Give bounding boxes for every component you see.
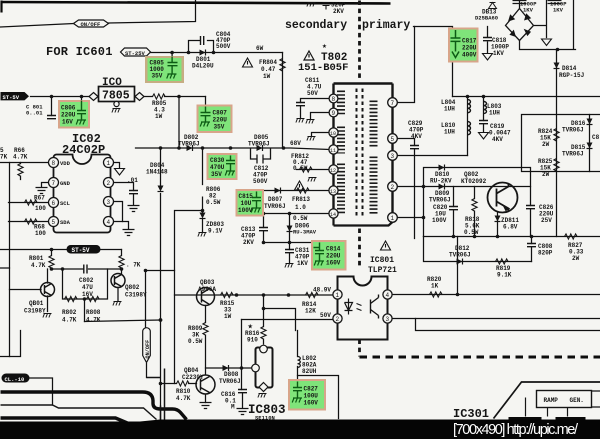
resistor R66 leads (20, 163, 22, 180)
resistor R819 (496, 259, 509, 264)
ground IC02 pin7 (36, 188, 48, 194)
svg-text:TVR06J: TVR06J (429, 197, 451, 204)
svg-text:2KV: 2KV (333, 8, 344, 15)
wire primary drop to T802 pin7 (398, 27, 415, 103)
svg-text:0.5W: 0.5W (464, 229, 479, 236)
svg-text:8: 8 (332, 96, 336, 103)
capacitor C801 (47, 116, 56, 119)
svg-text:C815: C815 (239, 193, 254, 200)
capacitor 320P top (323, 3, 330, 10)
svg-text:CL.-10: CL.-10 (5, 376, 25, 383)
wire 7805 out drop (178, 97, 180, 149)
svg-text:RGP-15J: RGP-15J (559, 72, 584, 79)
svg-text:1: 1 (391, 215, 395, 222)
svg-text:C3198Y: C3198Y (24, 308, 46, 315)
IC301 block outline (494, 382, 600, 419)
capacitor C813 (259, 228, 268, 231)
node ON/OFF vertical pill (143, 328, 151, 363)
wire SDA net (9, 221, 50, 223)
core dashed line mid (358, 229, 361, 269)
wire ST-25V net (151, 52, 283, 54)
svg-text:68V: 68V (290, 140, 301, 147)
svg-text:D807: D807 (268, 196, 283, 203)
svg-text:10: 10 (330, 131, 336, 137)
inductor L803 (484, 102, 487, 114)
svg-text:QB03: QB03 (200, 279, 215, 286)
node dot 467 (466, 95, 470, 99)
svg-text:C807: C807 (213, 110, 228, 117)
svg-text:1W: 1W (263, 73, 271, 80)
svg-text:151-B05F: 151-B05F (298, 62, 348, 74)
svg-text:9.1K: 9.1K (497, 272, 512, 279)
ground arrow C818 (483, 54, 493, 61)
svg-text:ICO: ICO (102, 77, 122, 89)
svg-text:C827: C827 (304, 386, 319, 393)
capacitor C829 leads (414, 139, 416, 239)
wire left rail (9, 163, 11, 357)
svg-text:★: ★ (322, 42, 327, 51)
diode D810 (439, 165, 445, 171)
svg-text:2: 2 (336, 316, 340, 323)
green highlight C814 (311, 240, 347, 271)
wire 320 link (85, 320, 161, 322)
svg-text:GEN.: GEN. (570, 397, 584, 404)
svg-text:1KV: 1KV (523, 7, 534, 14)
wire C816 branch (242, 320, 243, 408)
svg-text:0.5W: 0.5W (188, 338, 203, 345)
zener ZD803 (200, 213, 206, 219)
warning triangle T802 (304, 51, 314, 60)
svg-text:470U: 470U (210, 164, 225, 171)
diode D802 (187, 145, 193, 151)
diode D806 leads (289, 214, 291, 243)
svg-text:TVR06J: TVR06J (264, 203, 286, 210)
svg-text:16V: 16V (62, 119, 73, 126)
wire SCL net (9, 202, 50, 204)
svg-text:R801: R801 (29, 255, 44, 262)
green highlight C827 (288, 379, 326, 411)
svg-text:7: 7 (52, 180, 56, 187)
svg-text:4.7K: 4.7K (176, 395, 191, 402)
transistor Q802 (488, 183, 518, 213)
ground Q804 (200, 403, 212, 409)
svg-text:ST-5V: ST-5V (3, 94, 20, 101)
node CL-10 pill (2, 374, 30, 384)
opto pin 1 (333, 290, 342, 299)
diode D804 (158, 186, 164, 192)
wire L804 branch (467, 97, 469, 156)
resistor R827 (565, 234, 578, 239)
node dots 294 net (235, 293, 291, 297)
svg-text:12: 12 (330, 168, 336, 174)
node dot 263-213 (262, 212, 266, 216)
node dot 160-319 (159, 318, 163, 322)
pin 8 (329, 94, 338, 103)
watermark band (0, 420, 600, 439)
wire primary top (414, 27, 453, 97)
svg-text:1K: 1K (431, 283, 439, 290)
svg-text:24C02P: 24C02P (62, 143, 105, 157)
node dot 160-147 (159, 146, 163, 150)
capacitor C808 (527, 244, 536, 247)
wire T802 pin12 lead (297, 169, 330, 171)
pin 1 (388, 213, 398, 223)
svg-text:35V: 35V (152, 73, 163, 80)
svg-text:220U: 220U (213, 117, 228, 124)
resistor R810h (177, 381, 190, 386)
diode D808 (223, 365, 229, 371)
svg-text:TVR06J: TVR06J (449, 252, 471, 259)
node dot 241-367 (240, 366, 244, 370)
svg-text:TLP721: TLP721 (368, 266, 397, 275)
wire Q804 emitter (205, 395, 207, 403)
wire Q802 collector rail (530, 168, 532, 237)
svg-text:RU-2KV: RU-2KV (430, 178, 452, 185)
transformer core dashes (357, 89, 363, 216)
svg-text:R810: R810 (176, 388, 191, 395)
svg-text:7: 7 (391, 100, 395, 107)
ground 7805 (112, 109, 121, 113)
svg-text:910: 910 (247, 337, 258, 344)
svg-text:1KV: 1KV (553, 7, 564, 14)
optocoupler phototransistor (371, 295, 379, 319)
svg-text:RU-3MAV: RU-3MAV (293, 229, 317, 236)
node dot 84-298 (83, 297, 87, 301)
wire T802 pin5 lead (398, 138, 415, 140)
capacitor C801 lead (51, 97, 53, 116)
svg-text:4: 4 (107, 219, 111, 226)
svg-text:ON/OFF: ON/OFF (145, 340, 151, 359)
resistor R66v (18, 164, 23, 177)
IC301 RAMP GEN box (537, 391, 600, 408)
diode D815 (587, 143, 593, 149)
resistor R815 (221, 292, 234, 297)
svg-text:2W: 2W (572, 255, 580, 262)
svg-text:D808: D808 (224, 371, 239, 378)
svg-text:11: 11 (330, 148, 336, 154)
diode D805 (257, 145, 263, 151)
svg-text:2: 2 (107, 180, 111, 187)
svg-text:1: 1 (336, 292, 340, 299)
wire CL-10 (30, 378, 53, 405)
green highlight C807 (197, 105, 233, 134)
IC02 pin 5 (49, 217, 59, 227)
resistor R805h (153, 94, 166, 99)
diode D813 symbol pair (489, 3, 497, 9)
warning triangle IC801 (381, 241, 391, 250)
node dot 557 (556, 48, 560, 52)
svg-text:1N4148: 1N4148 (146, 169, 168, 176)
wire L803/C819 branch (483, 97, 485, 132)
top scan border (1, 2, 391, 4)
wire R810 net (161, 383, 197, 385)
node dot 51-96 (50, 95, 54, 99)
wire jog 308 (264, 309, 296, 331)
optocoupler LED (345, 299, 362, 315)
capacitor C818 lead (487, 27, 489, 53)
node dot 289-242 (288, 241, 292, 245)
capacitor C817 (in highlight) (451, 32, 461, 58)
resistor R820 (430, 292, 443, 297)
pin 9 (329, 108, 338, 117)
wire ON/OFF vertical net (146, 271, 175, 378)
dashed isolation line horizontal (360, 356, 600, 359)
capacitor C804 (201, 36, 204, 45)
node dot 423-217 (422, 216, 426, 220)
wire ON/OFF right (109, 1, 196, 24)
thick trace 391 (1, 392, 187, 420)
capacitor C813 leads (263, 214, 265, 243)
svg-text:TVR06J: TVR06J (248, 141, 270, 148)
resistor R806 leads (202, 148, 204, 214)
wire 236 rail (424, 236, 600, 238)
svg-text:A966A: A966A (198, 286, 216, 293)
opto pin 4 (383, 290, 392, 299)
wire 5V net (31, 96, 206, 98)
wire R816 branch (263, 295, 265, 344)
wire IC02 pin3 (113, 202, 123, 222)
transistor Q801 (41, 283, 55, 297)
transformer winding left (337, 91, 345, 214)
svg-text:FR813: FR813 (292, 196, 310, 203)
IC02 pin 1 (104, 158, 114, 168)
svg-text:14: 14 (330, 212, 336, 218)
svg-text:0.5W: 0.5W (206, 199, 221, 206)
svg-text:16V: 16V (82, 291, 93, 298)
wire 96V rail (453, 96, 600, 98)
capacitor 1000P top marks (513, 1, 562, 4)
svg-text:ON/OFF: ON/OFF (81, 21, 101, 28)
svg-text:220U: 220U (462, 45, 477, 52)
ground C811 (296, 119, 305, 123)
IC301 pads (509, 417, 586, 422)
ground pin12 (308, 178, 317, 182)
wire T802 pin1 lead (398, 217, 424, 219)
core dashed line upper (358, 1, 361, 81)
green highlight C830 (207, 153, 238, 180)
IC301 pad leads (526, 398, 568, 417)
node dot 423-186 (422, 185, 426, 189)
pin 12 (329, 165, 338, 174)
inductor L804 (468, 100, 471, 113)
node dot 160-383 (159, 382, 163, 386)
wire 330 rail (416, 319, 600, 331)
node dot 457-294 (456, 293, 460, 297)
node ON/OFF pill (74, 20, 109, 28)
wire opto pin3 net (393, 318, 600, 320)
resistor R67h (25, 200, 38, 205)
diode D816 (587, 119, 593, 125)
wire bridge right (535, 1, 547, 38)
svg-text:. 7K: . 7K (126, 262, 141, 269)
ground IC02 pin4 (123, 230, 135, 236)
ground arrow bridge (542, 39, 552, 46)
pin 13 (329, 186, 338, 195)
capacitor C811 (296, 103, 305, 106)
diode D806 (287, 226, 293, 232)
svg-text:6.8V: 6.8V (503, 224, 518, 231)
node dot 202-210 (201, 209, 205, 213)
ground C831 (285, 264, 294, 268)
resistor FR812 (300, 167, 313, 172)
node dot 283-147 (282, 146, 286, 150)
resistor R816v (261, 327, 266, 340)
svg-text:13: 13 (330, 189, 336, 195)
svg-text:9: 9 (332, 110, 336, 117)
node dot 51-268 (50, 267, 54, 271)
ground arrow C819 (479, 133, 489, 140)
svg-text:220U: 220U (326, 253, 341, 260)
green highlight C805 (145, 56, 184, 83)
ground Q801 (43, 314, 52, 318)
svg-text:FOR IC601: FOR IC601 (46, 45, 113, 59)
wire T802 pin10 lead (312, 133, 330, 137)
pin 3 (388, 151, 398, 161)
svg-text:IC301: IC301 (453, 407, 489, 421)
svg-text:7K: 7K (0, 154, 8, 161)
svg-text:C8: C8 (592, 134, 600, 141)
svg-text:48.9V: 48.9V (313, 287, 331, 294)
diode D814 (554, 63, 560, 69)
svg-text:4KV: 4KV (411, 133, 422, 140)
svg-text:0.47: 0.47 (261, 66, 276, 73)
node dot 230-147 (229, 146, 233, 150)
opto pin 2 (333, 314, 342, 323)
svg-text:500V: 500V (253, 178, 268, 185)
IC803 body (252, 345, 273, 391)
svg-text:500V: 500V (216, 43, 231, 50)
resistor R68h (25, 219, 38, 224)
diode D812 (457, 259, 463, 265)
svg-text:7805: 7805 (102, 90, 130, 103)
svg-text:TVR06J: TVR06J (219, 378, 241, 385)
svg-text:35V: 35V (214, 124, 225, 131)
svg-text:VDD: VDD (60, 160, 71, 167)
opto pin 3 (383, 314, 392, 323)
wire stub 267 (1, 267, 10, 269)
ground Q802b (113, 302, 122, 306)
wire ON/OFF left (1, 24, 74, 28)
svg-text:400V: 400V (462, 52, 477, 59)
capacitor C805 lead (171, 53, 173, 57)
capacitor C808 leads (531, 237, 533, 262)
thick trace 418 (1, 418, 141, 429)
svg-text:GND: GND (60, 180, 71, 187)
svg-text:C817: C817 (462, 38, 477, 45)
pin 11 (329, 145, 338, 154)
node dot 51-249 (50, 248, 54, 252)
svg-text:3: 3 (391, 153, 395, 160)
svg-text:50V: 50V (320, 312, 331, 319)
svg-text:100: 100 (35, 230, 46, 237)
transformer T802 left rail (332, 84, 334, 214)
IC02 pin 6 (49, 198, 59, 208)
svg-text:0..01: 0..01 (26, 110, 43, 117)
transformer T802 top link (334, 82, 393, 84)
svg-text:4.7K: 4.7K (62, 317, 77, 324)
ground pin10 (307, 137, 316, 141)
svg-text:10U: 10U (241, 200, 252, 207)
svg-text:9.1V: 9.1V (208, 228, 223, 235)
node dot 121-268 (120, 267, 124, 271)
wire 50V net (242, 319, 334, 321)
ground pin9 (306, 120, 315, 124)
node dot 213 (212, 51, 216, 55)
wire bridge top/bottom (520, 1, 576, 50)
svg-text:100V: 100V (238, 207, 253, 214)
resistor R814 (306, 292, 319, 297)
capacitor C812 loop (251, 148, 271, 164)
node dot 81-96 (80, 95, 84, 99)
wire .7K branch (121, 250, 123, 275)
svg-text:secondary: secondary (285, 19, 347, 32)
wire opto pin4 net (393, 294, 600, 296)
svg-text:1UH: 1UH (444, 129, 455, 136)
transformer T802 right rail (391, 84, 393, 218)
resistor FR804 (280, 59, 285, 72)
IC02 pin 7 (49, 178, 59, 188)
resistor R802h (65, 296, 78, 301)
svg-text:4: 4 (386, 292, 390, 299)
ground top 310 (307, 3, 316, 7)
pin 5 (388, 134, 398, 144)
svg-text:SDA: SDA (60, 219, 71, 226)
wire box corner right (298, 376, 339, 419)
svg-text:Q802: Q802 (464, 171, 479, 178)
wire snubber top (522, 115, 600, 172)
resistor R809v (203, 323, 208, 336)
svg-text:100V: 100V (432, 217, 447, 224)
svg-text:QB04: QB04 (184, 367, 199, 374)
capacitor C818 (483, 38, 492, 41)
transistor Q803 (197, 288, 215, 306)
capacitor C831 (285, 250, 294, 253)
svg-text:C802: C802 (79, 277, 94, 284)
wire D810 loop (424, 168, 530, 237)
svg-text:1UH: 1UH (489, 110, 500, 117)
svg-text:QB01: QB01 (29, 300, 44, 307)
diode D807 (275, 188, 281, 194)
pin 10 (329, 128, 338, 137)
trace crossings (147, 369, 165, 421)
wire mult box (63, 269, 108, 299)
resistor R818v (472, 199, 477, 212)
wire 261 rail (424, 237, 532, 262)
diode bridge D813 (506, 9, 534, 41)
svg-text:ST-5V: ST-5V (72, 247, 90, 254)
wire 84 drop (84, 299, 86, 322)
svg-text:C3198Y: C3198Y (125, 292, 147, 299)
resistor FR813 (297, 188, 310, 193)
svg-text:5: 5 (52, 219, 56, 226)
svg-text:primary: primary (362, 19, 410, 32)
capacitor IC02 pin2 (129, 191, 138, 194)
svg-text:2W: 2W (542, 171, 550, 178)
transistor Q802b (111, 274, 125, 288)
wire FR804 drop (282, 53, 284, 149)
wire C807 corner (205, 97, 207, 105)
wire T802 pin9 lead (311, 113, 330, 119)
warning triangle fusible (243, 58, 253, 67)
wire opto pin1 net (175, 294, 334, 296)
regulator 7805 box (89, 87, 144, 107)
svg-text:M: M (231, 404, 235, 411)
svg-text:82UH: 82UH (302, 368, 317, 375)
svg-text:100: 100 (35, 205, 46, 212)
wire T802 pin3 lead (398, 155, 468, 157)
resistor R801 leads (51, 250, 53, 270)
IC02 pin 8 (49, 158, 59, 168)
